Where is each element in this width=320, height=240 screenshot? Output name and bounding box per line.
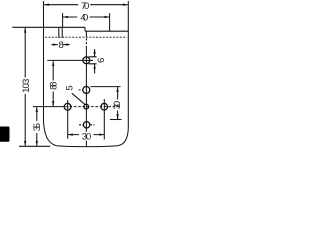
arrow 30 right bottom [116, 114, 118, 119]
hole H1 top dia6 [83, 57, 90, 64]
svg-text:5: 5 [65, 85, 76, 90]
arrow 30 bottom right [99, 133, 104, 135]
arrow 40 right [105, 16, 110, 18]
hidden edge dashed line [45, 36, 127, 38]
arrow 30 right top [116, 87, 118, 92]
dim 40 left extension [62, 13, 64, 28]
dim 6 line [94, 49, 96, 74]
part outline top-left edge with extension to 103 dim [12, 26, 85, 28]
dim 103 line [24, 28, 26, 146]
arrow 35 top [36, 107, 38, 112]
svg-text:30: 30 [82, 132, 92, 143]
arrow 35 bottom [36, 141, 38, 146]
bottom hole row centerline dashed [61, 106, 120, 108]
svg-text:88: 88 [49, 82, 60, 90]
right hole vertical centerline / extension [103, 99, 105, 140]
svg-text:35: 35 [32, 123, 43, 131]
svg-text:30: 30 [112, 101, 123, 109]
svg-text:70: 70 [81, 1, 89, 12]
dim 88 line [52, 61, 54, 106]
svg-text:8: 8 [59, 40, 64, 51]
slot left edge [58, 27, 60, 38]
part outline right edge [127, 31, 129, 128]
part outline bottom curve [44, 122, 129, 147]
dim 30 bottom line [68, 134, 104, 136]
svg-text:103: 103 [21, 79, 32, 93]
black corner mark (masked logo block) [0, 127, 10, 142]
left hole vertical centerline / extension [67, 100, 69, 139]
arrow 88 top [52, 61, 54, 66]
dim 70 left extension line [43, 1, 45, 27]
dim 30 right top extension [91, 86, 121, 88]
dim 70 line [44, 4, 127, 6]
hole H4 dashed ticks [79, 124, 94, 126]
arrow 8 right [63, 43, 68, 45]
dim 30 right line [117, 87, 119, 119]
part outline step [84, 27, 86, 31]
arrow 103 bottom [24, 141, 26, 146]
hole H3 small dia5 [84, 104, 89, 109]
arrow 70 right [123, 4, 128, 6]
center column centerline [85, 32, 87, 35]
svg-text:6: 6 [96, 58, 107, 63]
arrow dia6 top [93, 52, 95, 57]
slot right edge [61, 27, 63, 38]
dim 70 right extension line [127, 1, 129, 31]
bottom hole row line solid part [33, 106, 61, 108]
arrow 30 bottom left [68, 133, 73, 135]
middle hole left dashed tick [79, 89, 83, 91]
hole H2 middle [83, 86, 90, 93]
dim 8 arrow shafts [51, 44, 70, 46]
arrow 88 bottom [52, 101, 54, 106]
leader for dia 5 [72, 93, 85, 104]
hole H6 bottom right [101, 103, 108, 110]
arrow 40 left [63, 16, 68, 18]
part outline top-right edge [85, 30, 128, 32]
arrow 8 left [53, 43, 58, 45]
dim 35 line [36, 107, 38, 145]
dim 88 top extension / top hole h-centerline [47, 59, 93, 61]
arrow 70 left [44, 4, 49, 6]
arrow 103 top [24, 28, 26, 33]
svg-text:40: 40 [80, 12, 88, 23]
hole H4 lower center [83, 122, 89, 128]
dim 40 line [63, 16, 110, 18]
dim 30 right bottom extension [110, 119, 122, 121]
dim 6 extension ticks [89, 57, 97, 64]
arrow dia6 bottom [93, 64, 95, 69]
part outline left edge [43, 27, 45, 122]
hole H5 bottom left [64, 103, 71, 110]
dim 40 right extension [109, 13, 111, 31]
bottom extension line at lowest point [19, 145, 50, 147]
